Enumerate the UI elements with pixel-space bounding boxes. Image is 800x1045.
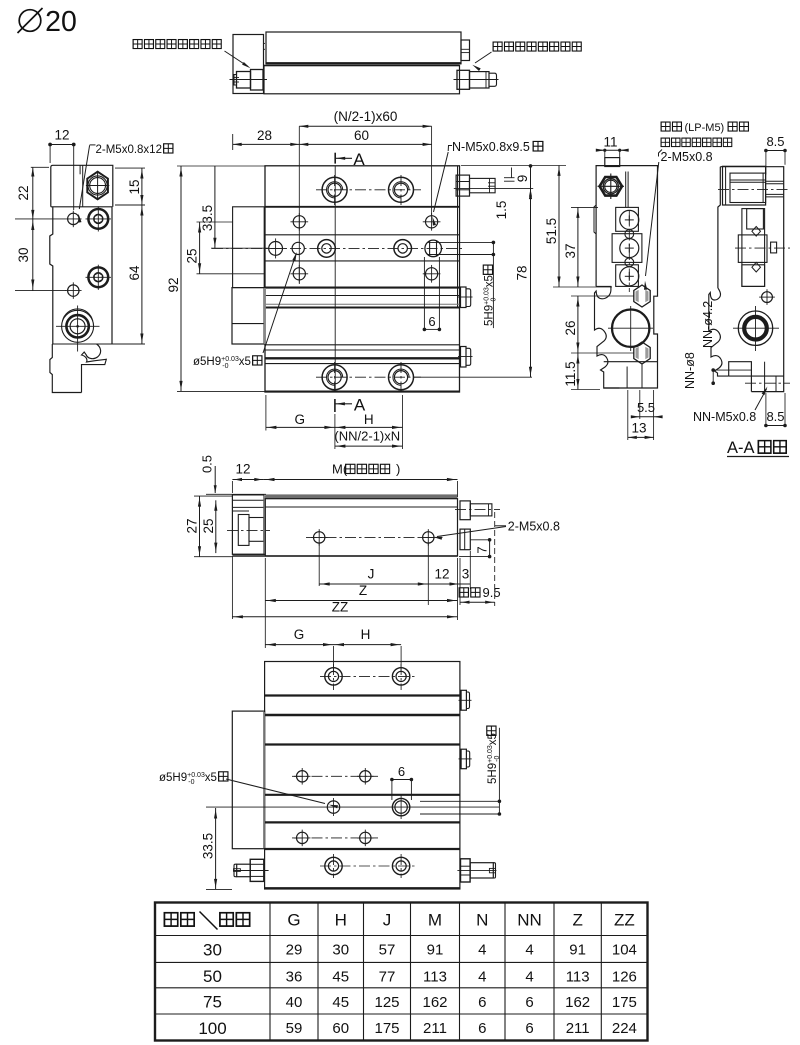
plugged port row3 right	[425, 240, 442, 257]
svg-text:(NN/2-1)xN: (NN/2-1)xN	[334, 429, 400, 444]
extension line 78 bottom	[413, 376, 532, 378]
bottom view body outline	[265, 662, 460, 890]
M5 port hole row2 right	[426, 216, 438, 228]
left view foot claw profile	[82, 344, 107, 393]
label 塞頭(LP-M5)兩處	[661, 122, 670, 131]
top view slide table body	[266, 32, 461, 64]
bottom view top hole right	[392, 668, 409, 685]
svg-text:0.5: 0.5	[200, 455, 215, 473]
left end plate upper housing main view	[233, 207, 265, 288]
svg-text:(N/2-1)x60: (N/2-1)x60	[334, 109, 398, 124]
svg-text:1.5: 1.5	[494, 201, 509, 220]
svg-text:27: 27	[185, 518, 200, 533]
svg-text:G: G	[294, 412, 305, 427]
svg-text:9: 9	[515, 175, 530, 183]
bottom right side screw lower	[461, 749, 466, 769]
A-A section outline	[720, 167, 783, 392]
bottom counterbore with cross	[392, 798, 409, 815]
middle view bracket centerline	[227, 530, 270, 532]
top slot right view	[625, 172, 627, 208]
leader to bottom dowel hole	[226, 779, 325, 804]
dimension ZZ	[232, 616, 457, 618]
right view left edge steps	[594, 205, 596, 234]
rear stroke adjuster bolt	[457, 70, 470, 89]
dimension 15 left view	[141, 168, 143, 205]
dimension 60	[299, 143, 431, 145]
left view body outline	[51, 207, 112, 344]
leader to side port	[437, 527, 506, 537]
svg-text:12: 12	[54, 128, 69, 143]
piston bore circle right view	[612, 310, 649, 347]
rear adjuster centerline	[454, 79, 499, 81]
M5 hole cross A-A	[762, 292, 773, 303]
svg-text:6: 6	[478, 1020, 486, 1037]
dimension 7	[489, 540, 491, 557]
table header row	[164, 913, 177, 926]
dimension 6 main view	[423, 257, 425, 329]
rail cross-section block	[612, 234, 642, 263]
M5 thread hole left view upper	[68, 213, 79, 224]
table counterbore top-right	[389, 177, 414, 202]
dimension 37	[577, 207, 579, 287]
svg-text:78: 78	[515, 265, 530, 280]
dimension 8.5 top	[766, 150, 785, 152]
svg-text:Z: Z	[359, 583, 367, 598]
svg-text:40: 40	[286, 994, 303, 1011]
dimension 25	[199, 222, 201, 274]
small ball spacer 1	[625, 230, 634, 239]
svg-text:25: 25	[201, 518, 216, 533]
leader NN-M5	[755, 389, 767, 410]
extension line hole column right	[431, 126, 433, 215]
svg-text:29: 29	[286, 942, 303, 959]
svg-text:162: 162	[422, 994, 447, 1011]
dimension 12 right	[428, 583, 460, 585]
middle view rear adjuster	[460, 501, 470, 520]
bottom left corner screw	[250, 859, 264, 881]
table counterbore top-left	[322, 177, 347, 202]
dimension 25 middle view	[215, 500, 217, 553]
svg-text:12: 12	[434, 567, 449, 582]
section arrow A bottom	[334, 399, 336, 412]
svg-text:30: 30	[203, 940, 222, 959]
dimension 6 bottom view	[392, 779, 412, 781]
svg-text:91: 91	[427, 942, 444, 959]
ball bearing housing upper	[616, 207, 639, 231]
extension rod max position	[494, 512, 496, 606]
dimension 9	[529, 164, 533, 168]
main view horizontal edges	[265, 206, 460, 208]
hex locknut on left view	[87, 172, 108, 200]
dimension H bottom view	[334, 644, 402, 646]
counterbore screw hole left view lower	[88, 267, 108, 287]
dimension 26	[577, 296, 579, 353]
bottom dowel hole 5H9	[327, 801, 339, 813]
bottom thread hole row2 right	[360, 832, 371, 843]
svg-text:H: H	[364, 412, 374, 427]
dimension 22	[32, 168, 34, 219]
A-A foot claw profile	[709, 288, 729, 376]
svg-text:G: G	[287, 911, 300, 930]
bottom view top hole left	[325, 668, 342, 685]
middle view table top plate dark band	[265, 494, 457, 498]
middle view left bracket	[232, 495, 264, 554]
svg-text:100: 100	[198, 1019, 226, 1038]
dimension 78	[530, 189, 532, 378]
bottom counterbore left	[322, 365, 347, 390]
M5 port hole row4 left	[293, 268, 305, 280]
svg-text:J: J	[368, 567, 375, 582]
dimension 33.5	[214, 166, 216, 248]
dimension H main view	[335, 426, 403, 428]
centerline top hole row	[316, 189, 421, 191]
svg-text:113: 113	[423, 968, 447, 985]
svg-text:59: 59	[286, 1020, 303, 1037]
svg-text:5.5: 5.5	[637, 400, 655, 415]
svg-text:33.5: 33.5	[201, 833, 216, 859]
side stub A-A	[771, 242, 777, 253]
svg-text:11.5: 11.5	[563, 361, 578, 386]
side M5 port right	[423, 532, 434, 543]
dimension 12 middle view	[232, 479, 264, 481]
reference lines 5H9 bottom	[498, 728, 500, 814]
main centerline row3	[212, 247, 462, 249]
section arrow A top	[334, 153, 336, 164]
svg-text:22: 22	[16, 185, 31, 200]
upper port plug hex	[634, 285, 650, 307]
left view body bottom edge under bore	[52, 343, 145, 345]
centerline bottom hole row	[316, 376, 421, 378]
svg-text:51.5: 51.5	[544, 218, 559, 244]
svg-text:104: 104	[612, 942, 637, 959]
bottom counterbore right	[389, 365, 414, 390]
svg-text:175: 175	[612, 994, 637, 1011]
svg-text:28: 28	[257, 128, 272, 143]
hex nut right view	[600, 177, 622, 196]
svg-text:ø5H9+0.03-0x5: ø5H9+0.03-0x5	[159, 772, 217, 786]
dimension J	[319, 583, 428, 585]
svg-text:8.5: 8.5	[766, 134, 784, 149]
right view foot claw profile	[595, 286, 620, 388]
side clamp screw lower right edge	[461, 347, 467, 368]
svg-text:5H9+0.03-0x5: 5H9+0.03-0x5	[484, 275, 498, 326]
main view body outline	[265, 166, 460, 392]
small ball spacer 2	[625, 258, 634, 267]
svg-text:25: 25	[185, 248, 200, 263]
svg-text:26: 26	[563, 320, 578, 335]
label rear-end stroke adjuster 後退端行程調節器	[493, 42, 502, 51]
svg-text:A: A	[353, 150, 365, 169]
svg-text:20: 20	[45, 6, 77, 38]
ball bearing housing lower	[616, 265, 639, 287]
svg-text:15: 15	[127, 179, 142, 194]
bottom thread hole row1 right	[360, 771, 371, 782]
dimension 30	[32, 219, 34, 291]
svg-text:4: 4	[478, 942, 486, 959]
svg-text:6: 6	[478, 994, 486, 1011]
bottom thread hole row1 left	[297, 771, 308, 782]
dimension 8.5 bottom	[766, 425, 785, 427]
svg-text:64: 64	[127, 265, 142, 281]
svg-text:M: M	[428, 911, 442, 930]
svg-text:33.5: 33.5	[200, 205, 215, 231]
dimension 5.5	[631, 415, 640, 418]
M5 port hole row2 left	[293, 216, 305, 228]
svg-text:6: 6	[428, 314, 435, 329]
dimension 51.5	[558, 165, 560, 287]
svg-text:J: J	[383, 911, 392, 930]
top view right clip block	[461, 40, 470, 61]
svg-text:126: 126	[612, 968, 637, 985]
svg-text:2-M5x0.8: 2-M5x0.8	[508, 520, 560, 534]
svg-text:4: 4	[478, 968, 486, 985]
bottom view centerline dowel row	[206, 806, 499, 808]
guide counterbore row3 left	[318, 240, 336, 258]
counterbore screw hole left view upper	[88, 209, 108, 229]
svg-text:H: H	[361, 627, 371, 642]
M5 thread hole left view lower	[68, 285, 79, 296]
svg-text:7: 7	[475, 546, 490, 553]
svg-text:A-A: A-A	[727, 439, 755, 457]
svg-text:N-M5x0.8x9.5: N-M5x0.8x9.5	[452, 140, 530, 154]
label front-end stroke adjuster 前進端行程調節器	[133, 40, 142, 49]
svg-text:(LP-M5): (LP-M5)	[685, 122, 725, 134]
front adjuster centerline	[230, 79, 268, 81]
svg-text:125: 125	[374, 994, 399, 1011]
bottom view bottom hole left	[325, 857, 342, 874]
svg-text:H: H	[335, 911, 347, 930]
svg-text:113: 113	[566, 968, 590, 985]
A-A foot block	[729, 375, 784, 377]
section line A-A vertical	[334, 166, 336, 392]
svg-text:3: 3	[462, 567, 470, 582]
dimension 12 left view	[50, 144, 74, 146]
dimension M 平台長度	[264, 479, 458, 481]
svg-text:211: 211	[566, 1020, 590, 1037]
side clamp screw upper right edge	[461, 287, 467, 308]
bottom thread hole row2 left	[297, 832, 308, 843]
svg-text:211: 211	[423, 1020, 447, 1037]
dimension G bottom view	[265, 644, 333, 646]
rail clamp block A-A	[742, 209, 765, 287]
bottom right side screw upper	[461, 690, 466, 710]
right cross view outline	[596, 166, 657, 388]
dimension 最大9.5	[459, 588, 468, 597]
middle view rear port boss	[460, 529, 470, 550]
svg-text:NN-ø4.2: NN-ø4.2	[701, 301, 715, 348]
lower port plug hex	[634, 342, 650, 364]
dimension G main view	[266, 426, 335, 428]
dimension 33.5 bottom view	[215, 808, 217, 889]
dowel hole 5H9 row3	[292, 242, 304, 254]
svg-text:5H9+0.03-0x5: 5H9+0.03-0x5	[487, 733, 501, 784]
dimension 27	[199, 496, 201, 557]
stroke code table	[155, 903, 648, 1041]
left view outline upper block	[51, 165, 113, 207]
svg-text:NN-ø8: NN-ø8	[683, 352, 697, 389]
bottom view left plate	[232, 711, 264, 849]
dimension 1.5	[511, 168, 513, 178]
svg-text:N: N	[476, 911, 488, 930]
svg-text:): )	[396, 462, 400, 477]
svg-text:6: 6	[525, 994, 533, 1011]
svg-text:175: 175	[374, 1020, 399, 1037]
svg-text:2-M5x0.8x12: 2-M5x0.8x12	[96, 144, 162, 156]
svg-text:12: 12	[235, 462, 250, 477]
dimension 28	[233, 143, 300, 145]
front stroke adjuster bolt	[251, 70, 264, 91]
svg-text:45: 45	[332, 968, 349, 985]
svg-text:ø5H9+0.03-0x5: ø5H9+0.03-0x5	[193, 356, 251, 370]
dimension (N/2-1)x60	[299, 125, 431, 127]
bottom port column	[626, 367, 628, 389]
dimension 11	[596, 149, 628, 151]
M5 port hole row4 right	[426, 268, 438, 280]
bottom view horizontal bands	[265, 694, 460, 696]
dimension 13	[628, 436, 654, 438]
svg-text:162: 162	[565, 994, 590, 1011]
stroke adjuster main view top right	[456, 175, 469, 196]
svg-text:224: 224	[612, 1020, 637, 1037]
ball lower	[620, 267, 639, 286]
svg-text:60: 60	[332, 1020, 349, 1037]
top view cylinder body	[264, 66, 460, 94]
svg-text:50: 50	[203, 967, 222, 986]
svg-text:57: 57	[379, 942, 396, 959]
side M5 port left	[314, 532, 325, 543]
svg-text:36: 36	[286, 968, 303, 985]
dimension 3	[460, 583, 470, 585]
ball upper	[620, 210, 639, 229]
svg-text:NN: NN	[517, 911, 542, 930]
svg-text:NN-M5x0.8: NN-M5x0.8	[693, 410, 756, 424]
svg-text:6: 6	[525, 1020, 533, 1037]
svg-text:30: 30	[16, 247, 31, 262]
bottom right corner screw	[461, 859, 471, 882]
right view top block	[605, 158, 620, 167]
bracket clip fingers A-A	[766, 180, 784, 182]
svg-text:92: 92	[166, 277, 181, 292]
svg-text:ZZ: ZZ	[332, 599, 349, 614]
svg-text:9.5: 9.5	[483, 585, 501, 600]
svg-text:Z: Z	[572, 911, 582, 930]
leader to front adjuster	[225, 51, 249, 67]
dimension 0.5	[206, 493, 266, 495]
svg-text:30: 30	[332, 942, 349, 959]
dimension Z	[265, 600, 457, 602]
reference lines to plugged port	[427, 241, 493, 243]
svg-text:6: 6	[398, 764, 405, 779]
adjuster centerline extension	[454, 188, 533, 190]
leader to M5 hole	[90, 144, 96, 146]
extension line hole column left	[298, 126, 300, 284]
bottom view bottom hole right	[392, 857, 409, 874]
leader dowel hole	[263, 256, 296, 354]
left end plate main view	[232, 288, 264, 344]
rod bore left view	[62, 310, 94, 342]
svg-text:11: 11	[603, 135, 617, 150]
svg-text:ZZ: ZZ	[614, 911, 635, 930]
svg-text:37: 37	[563, 243, 578, 258]
dimension 11.5	[577, 353, 579, 390]
svg-text:G: G	[294, 627, 305, 642]
sensor rail bracket A-A	[723, 166, 766, 205]
title bore size ⌀20	[19, 10, 41, 32]
thread hole row3 far-left	[269, 242, 283, 256]
leader to rear adjuster	[475, 52, 492, 63]
svg-text:75: 75	[203, 993, 222, 1012]
top view left end block	[233, 35, 264, 94]
dimension 64 left view	[141, 205, 143, 344]
svg-text:77: 77	[379, 968, 396, 985]
reference dots NN-⌀8	[712, 370, 714, 383]
NN mounting counterbore A-A	[738, 311, 772, 345]
label 可作配管口使用	[661, 138, 670, 147]
svg-text:4: 4	[525, 942, 533, 959]
svg-text:45: 45	[332, 994, 349, 1011]
svg-text:13: 13	[631, 421, 646, 436]
svg-text:4: 4	[525, 968, 533, 985]
ball middle	[620, 239, 639, 258]
svg-text:91: 91	[569, 942, 586, 959]
svg-text:8.5: 8.5	[766, 409, 784, 424]
leader 2-M5 to plug hex	[646, 162, 659, 276]
svg-text:2-M5x0.8: 2-M5x0.8	[661, 150, 713, 164]
middle view body	[265, 499, 457, 556]
dimension 92	[180, 166, 182, 391]
svg-text:60: 60	[354, 128, 369, 143]
guide counterbore row3 right	[394, 240, 412, 258]
